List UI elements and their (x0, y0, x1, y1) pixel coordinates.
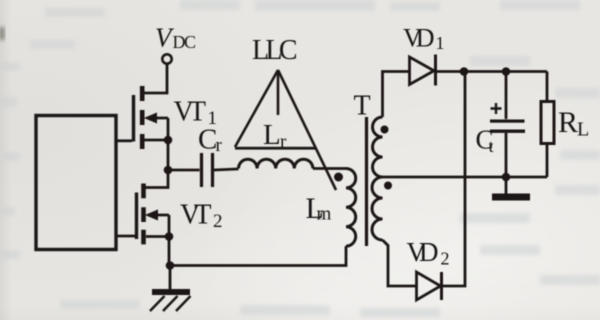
channel dashes (141, 184, 146, 245)
svg-text:2: 2 (213, 211, 223, 232)
wire box to VT2 gate (116, 235, 135, 238)
ground (secondary) (492, 194, 530, 201)
transistor VT1 (134, 86, 169, 149)
LLC annotation triangle (235, 70, 336, 190)
label VD1 (403, 24, 445, 54)
polarity dot secondary bottom (384, 182, 392, 190)
wire Lr to Lm (313, 167, 346, 170)
wire Lm bottom to return (170, 246, 346, 265)
secondary return rail (center tap) (383, 176, 548, 179)
svg-text:C: C (198, 124, 217, 156)
inductor Lm (346, 169, 356, 247)
label Ct (476, 125, 494, 157)
body arrow wire (148, 214, 169, 217)
svg-text:T: T (354, 91, 371, 122)
label VT2 (180, 200, 223, 233)
svg-text:L: L (263, 119, 281, 151)
junction return node (166, 261, 175, 270)
wire junction to ground stub (505, 177, 508, 194)
dark smudge left edge (0, 27, 4, 40)
wire VT2 source down (168, 237, 171, 266)
junction node A (VT1 source) (164, 136, 173, 145)
wire node B to Cr (168, 169, 200, 172)
wire box to VT1 gate (116, 139, 132, 142)
label Lm (306, 192, 332, 225)
svg-text:r: r (216, 135, 223, 156)
junction VD2 riser on rail (460, 67, 469, 76)
diode VD1 (410, 55, 436, 86)
transformer secondary winding (372, 117, 382, 240)
control box (36, 116, 116, 250)
wire VD1 to output rail (436, 70, 548, 73)
gate bar (132, 95, 135, 142)
svg-text:2: 2 (441, 249, 450, 269)
channel dashes (140, 86, 145, 149)
wire rail to Ct (505, 72, 508, 120)
body arrow wire (147, 117, 168, 120)
junction node B (Cr tap / VT2 drain) (164, 166, 173, 175)
resistor RL (541, 102, 554, 144)
wire RL bottom to return rail (546, 144, 549, 178)
svg-text:VD: VD (403, 24, 435, 53)
junction Ct return (502, 173, 511, 182)
ground (primary) (150, 289, 191, 311)
supply terminal VDC (162, 54, 171, 63)
wire VDC to VT1 drain (144, 64, 167, 93)
capacitor Cr (202, 153, 213, 187)
wire secondary top to VD1 (383, 72, 410, 118)
gate bar (135, 193, 138, 240)
svg-text:t: t (489, 136, 494, 156)
svg-text:L: L (577, 119, 589, 141)
label RL (558, 106, 589, 141)
wire junction to ground (169, 266, 172, 290)
wire node B to VT2 drain (145, 170, 168, 188)
source lead (145, 139, 169, 142)
svg-text:VD: VD (407, 237, 439, 267)
label Cr (198, 124, 223, 157)
capacitor Ct (490, 120, 525, 133)
wire secondary bottom to VD2 (383, 240, 417, 286)
source lead (146, 235, 169, 238)
junction VT2 source (165, 232, 174, 241)
transformer T core (365, 117, 368, 246)
inductor Lr (239, 159, 313, 168)
wire VD2 to output rail riser (442, 72, 466, 287)
junction Ct on rail (502, 67, 511, 76)
diode VD2 (417, 272, 442, 300)
svg-text:VT: VT (180, 200, 212, 231)
label VT1 (174, 97, 218, 130)
capacitor Ct plus sign (491, 103, 502, 114)
label VD2 (407, 237, 450, 269)
wire node A to node B (167, 140, 170, 170)
label VDC (155, 23, 196, 53)
svg-text:DC: DC (173, 32, 197, 52)
wire Cr to Lr (214, 169, 239, 170)
wire rail down to RL (546, 72, 549, 102)
svg-text:m: m (317, 204, 332, 225)
body wire down to source (167, 118, 170, 140)
svg-text:R: R (558, 106, 578, 139)
svg-text:LLC: LLC (252, 35, 298, 66)
wire Ct to return rail (505, 133, 508, 177)
polarity dot Lm (334, 173, 343, 182)
svg-text:1: 1 (436, 33, 445, 53)
label Lr (263, 119, 287, 153)
transistor VT2 (137, 184, 170, 245)
body wire down to source (168, 215, 171, 237)
Lr underline bar (235, 147, 315, 150)
polarity dot secondary top (381, 126, 389, 134)
